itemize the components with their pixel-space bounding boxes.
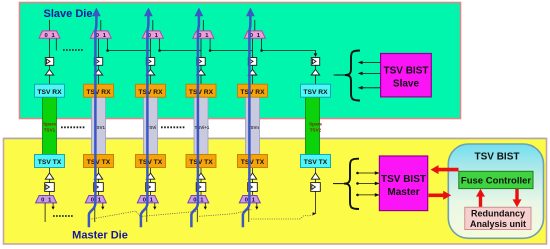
TSV RX1 bbox=[35, 84, 65, 97]
arrow into mux M1M input1 bbox=[52, 207, 55, 210]
wire shift chain slave col2 to col3 bbox=[108, 50, 151, 52]
wire mux3S input1 leg bbox=[159, 38, 161, 51]
svg-text:TSV BIST: TSV BIST bbox=[474, 152, 519, 163]
svg-text:TSV1: TSV1 bbox=[44, 127, 56, 132]
wire mux M3M input1 stub bbox=[154, 203, 156, 208]
wire mux M2M input1 stub bbox=[102, 203, 104, 208]
buffer B5M bbox=[248, 173, 256, 179]
arrowhead left y73.4 bbox=[358, 72, 363, 76]
mux M5S bbox=[244, 31, 265, 38]
blue signal path TSV col5 bbox=[243, 15, 251, 227]
wire brace slave tip bbox=[334, 74, 345, 76]
svg-text:TSV TX: TSV TX bbox=[38, 159, 62, 166]
wire buffer to FF3M bbox=[150, 179, 152, 182]
svg-text:Slave: Slave bbox=[393, 79, 420, 90]
flip-flop FF3M bbox=[146, 183, 156, 192]
Redundancy Analysis unit box bbox=[465, 207, 531, 229]
wire FF1M to mux bbox=[49, 191, 51, 195]
TSV TX3 bbox=[136, 155, 166, 168]
wire buffer to FF1M bbox=[49, 179, 51, 182]
svg-text:0: 0 bbox=[245, 198, 248, 204]
arrow into mux M4M input1 bbox=[204, 207, 207, 210]
wire master BIST line y173.0 bbox=[357, 172, 379, 174]
svg-text:Spare: Spare bbox=[309, 122, 322, 127]
wire mux2S input0 to FF bbox=[98, 38, 100, 58]
flip-flop FF3S bbox=[146, 58, 154, 66]
ellipsis omitted slave columns bbox=[63, 49, 84, 51]
arrow into mux M5M input1 bbox=[255, 207, 258, 210]
TSV bar TSVi+1 bbox=[194, 97, 208, 155]
blue arrowhead col5 bbox=[246, 8, 255, 17]
wire FF6S to buffer bbox=[315, 65, 317, 69]
wire shift chain slave col3 to col4 bbox=[160, 50, 201, 52]
wire mux M4M input0 down bbox=[196, 203, 198, 222]
wire FF2S to buffer bbox=[98, 65, 100, 69]
wire mux M1M input1 stub bbox=[52, 203, 54, 208]
buffer B6M bbox=[311, 173, 319, 179]
scan chain dotted col3-col4 bbox=[140, 212, 196, 217]
blue signal path TSV col3 bbox=[141, 15, 149, 227]
red arrow redundancy to fuse (up) bbox=[479, 195, 482, 207]
svg-text:TSV RX: TSV RX bbox=[303, 89, 328, 96]
wire mux2S input1 leg bbox=[107, 38, 109, 51]
wire mux M5M input1 stub bbox=[256, 203, 258, 208]
arrowhead left y62.5 bbox=[358, 61, 363, 65]
svg-text:TSV RX: TSV RX bbox=[240, 89, 265, 96]
svg-text:Master: Master bbox=[387, 187, 419, 198]
arrowhead right y183.4 bbox=[375, 182, 380, 186]
svg-text:Fuse Controller: Fuse Controller bbox=[461, 176, 532, 187]
wire FF3S to buffer bbox=[150, 65, 152, 69]
TSV RX4 bbox=[186, 84, 216, 97]
wire mux3S output up bbox=[152, 20, 154, 31]
wire shift chain slave col5 to spare RX2 bbox=[262, 51, 316, 55]
Fuse Controller box bbox=[459, 171, 533, 188]
blue arrowhead col4 bbox=[195, 8, 204, 17]
svg-text:TSV BIST: TSV BIST bbox=[381, 174, 426, 185]
brace slave bbox=[345, 51, 360, 101]
TSV BIST Master box bbox=[379, 156, 427, 211]
svg-text:Redundancy: Redundancy bbox=[471, 209, 525, 219]
flip-flop FF5M bbox=[248, 183, 258, 192]
buffer B5S bbox=[248, 70, 256, 76]
svg-text:TSV RX: TSV RX bbox=[37, 89, 62, 96]
mux M1S bbox=[39, 31, 60, 38]
TSV bar TSVn bbox=[246, 97, 260, 155]
wire mux M1M input0 down bbox=[44, 203, 46, 222]
buffer B2S bbox=[94, 70, 102, 76]
arrow scan into FF6M line bbox=[313, 212, 317, 215]
flip-flop FF4M bbox=[196, 183, 206, 192]
wire mux1S input0 to FF bbox=[49, 38, 51, 58]
mux M2M bbox=[85, 196, 106, 203]
mux M4S bbox=[193, 31, 214, 38]
scan chain dotted col4-col5 bbox=[197, 210, 252, 217]
TSV bar TSV1 bbox=[92, 97, 106, 155]
wire mux M3M input0 down bbox=[146, 203, 148, 222]
TSV BIST Slave box bbox=[381, 54, 432, 97]
wire brace master tip bbox=[333, 183, 344, 185]
wire TSV TX2 to buffer bbox=[98, 168, 100, 173]
mux M3M bbox=[137, 196, 158, 203]
TSV RX3 bbox=[136, 84, 166, 97]
svg-text:0: 0 bbox=[44, 33, 47, 39]
scan chain dotted col2-col3 bbox=[92, 211, 141, 219]
buffer B3M bbox=[146, 173, 154, 179]
TSV TX2 bbox=[84, 155, 114, 168]
flip-flop FF6M bbox=[311, 183, 321, 192]
wire FF6M down to scan chain bbox=[315, 191, 317, 213]
TSV spare TSV1 bar bbox=[43, 97, 57, 155]
svg-text:TSV RX: TSV RX bbox=[189, 89, 214, 96]
svg-text:0: 0 bbox=[193, 198, 196, 204]
wire slave BIST line y73.4 bbox=[359, 72, 381, 74]
flip-flop FF1M bbox=[45, 183, 55, 192]
blue arrowhead col3 bbox=[144, 8, 153, 17]
wire mux4S input0 to FF bbox=[200, 38, 202, 58]
svg-text:0: 0 bbox=[143, 198, 146, 204]
arrow into spare FF bbox=[314, 53, 318, 57]
wire TSV TX3 to buffer bbox=[150, 168, 152, 173]
wire FF2M to mux bbox=[98, 191, 100, 195]
wire TSV TX1 to buffer bbox=[49, 168, 51, 173]
wire TSV TX5 to buffer bbox=[252, 168, 254, 173]
buffer B4S bbox=[197, 70, 205, 76]
junction node mux2S input1 bbox=[106, 49, 109, 52]
junction node mux4S input1 bbox=[209, 49, 212, 52]
flip-flop FF2M bbox=[94, 183, 104, 192]
wire FF3M to mux bbox=[150, 191, 152, 195]
junction node mux5S input1 bbox=[260, 49, 263, 52]
wire buffer to FF2M bbox=[98, 179, 100, 182]
TSV TX6 bbox=[301, 155, 331, 168]
TSV RX2 bbox=[84, 84, 114, 97]
wire mux2S output up bbox=[100, 20, 102, 31]
mux M3S bbox=[142, 31, 163, 38]
flip-flop FF5S bbox=[248, 58, 256, 66]
TSV TX4 bbox=[186, 155, 216, 168]
red arrow fuse to master bbox=[438, 168, 459, 172]
TSV RX5 bbox=[238, 84, 268, 97]
wire FF5S to buffer bbox=[252, 65, 254, 69]
TSV RX6 bbox=[301, 84, 331, 97]
flip-flop FF1S bbox=[45, 58, 53, 66]
wire TSV TX4 to buffer bbox=[200, 168, 202, 173]
blue signal path TSV col4 bbox=[191, 15, 199, 227]
wire buffer to TSV RX5 bbox=[252, 75, 254, 84]
wire master BIST line y194.9 bbox=[357, 194, 379, 196]
master die bbox=[4, 139, 547, 245]
buffer B6S bbox=[311, 70, 319, 76]
wire mux M2M input0 down bbox=[94, 203, 96, 222]
wire shift chain slave col4 to col5 bbox=[210, 50, 252, 52]
wire TSV TX6 to buffer bbox=[315, 168, 317, 173]
gap ellipsis right bbox=[161, 126, 185, 128]
wire slave BIST line y87.8 bbox=[359, 87, 381, 89]
wire mux5S input0 to FF bbox=[252, 38, 254, 58]
buffer B1S bbox=[45, 70, 53, 76]
arrow into mux M3M input1 bbox=[153, 207, 156, 210]
slave die bbox=[20, 3, 461, 119]
arrow into mux M2M input1 bbox=[101, 207, 104, 210]
red arrow fuse to redundancy (down) bbox=[515, 189, 518, 201]
TSV spare TSV2 bar bbox=[306, 97, 320, 155]
arrowhead right y173.0 bbox=[375, 171, 380, 175]
wire buffer to FF4M bbox=[200, 179, 202, 182]
wire FF4M to mux bbox=[200, 191, 202, 195]
wire master BIST line y183.4 bbox=[357, 182, 379, 184]
scan chain dotted col5-col6 bbox=[251, 215, 313, 219]
svg-text:Spare: Spare bbox=[43, 122, 56, 127]
wire FF5M to mux bbox=[252, 191, 254, 195]
svg-text:TSV TX: TSV TX bbox=[189, 159, 213, 166]
wire mux3S input0 to FF bbox=[150, 38, 152, 58]
svg-text:TSV TX: TSV TX bbox=[241, 159, 265, 166]
gap ellipsis left bbox=[61, 126, 85, 128]
svg-text:TSV BIST: TSV BIST bbox=[383, 66, 428, 77]
mux M2S bbox=[90, 31, 111, 38]
dot left y194.9 bbox=[356, 194, 359, 197]
brace master bbox=[344, 159, 359, 209]
wire buffer to TSV RX3 bbox=[150, 75, 152, 84]
wire FF1S to buffer bbox=[49, 65, 51, 69]
wire mux M5M input0 down bbox=[248, 203, 250, 222]
wire FF4S to buffer bbox=[200, 65, 202, 69]
svg-text:TSV TX: TSV TX bbox=[139, 159, 163, 166]
wire mux5S input1 leg bbox=[261, 38, 263, 51]
ellipsis omitted master columns bbox=[53, 215, 73, 217]
wire buffer to TSV RX2 bbox=[98, 75, 100, 84]
flip-flop FF2S bbox=[94, 58, 102, 66]
mux M1M bbox=[36, 196, 57, 203]
wire buffer to FF6M bbox=[315, 179, 317, 182]
buffer B3S bbox=[146, 70, 154, 76]
svg-text:0: 0 bbox=[91, 198, 94, 204]
arrowhead left y87.8 bbox=[358, 86, 363, 90]
svg-text:Slave Die: Slave Die bbox=[44, 8, 93, 20]
wire buffer to TSV RX6 bbox=[315, 75, 317, 84]
wire buffer to FF5M bbox=[252, 179, 254, 182]
wire mux4S output up bbox=[202, 20, 204, 31]
mux M5M bbox=[239, 196, 260, 203]
dot left y183.4 bbox=[356, 182, 359, 185]
buffer B1M bbox=[45, 173, 53, 179]
wire mux5S output up bbox=[254, 20, 256, 31]
flip-flop FF4S bbox=[197, 58, 205, 66]
blue arrowhead col2 bbox=[92, 8, 101, 17]
svg-text:TSV RX: TSV RX bbox=[86, 89, 111, 96]
wire mux1S output up bbox=[49, 20, 51, 31]
wire buffer to TSV RX1 bbox=[49, 75, 51, 84]
wire mux M4M input1 stub bbox=[204, 203, 206, 208]
svg-text:Analysis unit: Analysis unit bbox=[470, 219, 526, 229]
TSV bar TSVi bbox=[144, 97, 158, 155]
svg-text:Master Die: Master Die bbox=[72, 230, 128, 242]
svg-text:0: 0 bbox=[41, 198, 44, 204]
wire buffer to TSV RX4 bbox=[200, 75, 202, 84]
mux M4M bbox=[188, 196, 209, 203]
red arrow master to bist bbox=[429, 194, 445, 198]
wire mux1S input1 leg bbox=[55, 38, 57, 51]
buffer B2M bbox=[94, 173, 102, 179]
buffer B4M bbox=[197, 173, 205, 179]
TSV TX5 bbox=[238, 155, 268, 168]
svg-text:TSV TX: TSV TX bbox=[304, 159, 328, 166]
arrowhead right y194.9 bbox=[375, 193, 380, 197]
wire mux4S input1 leg bbox=[209, 38, 211, 51]
wire slave BIST line y62.5 bbox=[359, 62, 381, 64]
blue signal path TSV col2 bbox=[89, 15, 97, 227]
svg-text:TSV RX: TSV RX bbox=[138, 89, 163, 96]
svg-text:TSV TX: TSV TX bbox=[87, 159, 111, 166]
svg-text:TSV2: TSV2 bbox=[310, 127, 322, 132]
junction node mux3S input1 bbox=[158, 49, 161, 52]
dot left y173.0 bbox=[356, 172, 359, 175]
TSV TX1 bbox=[35, 155, 65, 168]
master die top edge bbox=[4, 137, 547, 139]
flip-flop FF6S bbox=[311, 58, 319, 66]
